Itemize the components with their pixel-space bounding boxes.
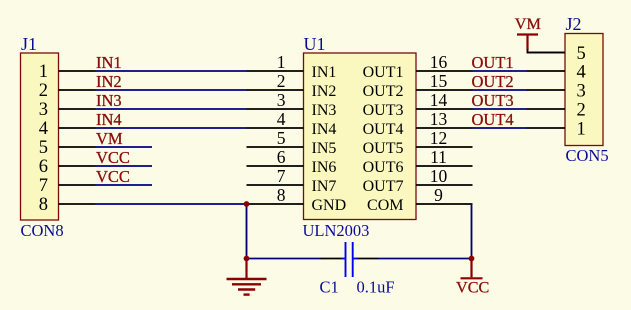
svg-text:IN4: IN4: [96, 110, 122, 129]
capacitor C1 left pin: [321, 258, 342, 260]
svg-text:OUT3: OUT3: [363, 102, 404, 119]
wire net VM stub: [96, 146, 153, 148]
svg-text:OUT5: OUT5: [363, 140, 404, 157]
svg-text:8: 8: [39, 195, 48, 215]
wire net IN1: [96, 70, 247, 72]
node junction at ground rail: [244, 256, 250, 262]
U1 left pin names IN1-IN7 GND: [312, 64, 347, 214]
node junction at VCC rail: [469, 256, 475, 262]
wire bottom rail left segment: [247, 258, 321, 260]
svg-text:IN1: IN1: [312, 64, 337, 81]
svg-text:3: 3: [39, 100, 48, 120]
svg-text:6: 6: [39, 157, 48, 177]
wire net VCC stub pin6: [96, 165, 153, 167]
wire net OUT3: [473, 108, 527, 110]
svg-text:1: 1: [39, 62, 48, 82]
svg-text:7: 7: [277, 166, 286, 186]
U1 right pins 16-9: [416, 71, 473, 204]
svg-text:5: 5: [39, 138, 48, 158]
svg-text:2: 2: [39, 81, 48, 101]
svg-text:12: 12: [430, 128, 448, 148]
svg-text:4: 4: [277, 109, 286, 129]
op-amp U1 body (ULN2003 IC): [304, 53, 417, 220]
svg-text:VM: VM: [96, 129, 123, 148]
power symbol VM bar: [517, 33, 538, 35]
svg-text:IN3: IN3: [96, 91, 122, 110]
ground symbol bar 4: [244, 293, 250, 295]
J1 pin numbers: [39, 62, 48, 215]
svg-text:2: 2: [277, 71, 286, 91]
svg-text:3: 3: [277, 90, 286, 110]
svg-text:VCC: VCC: [96, 148, 130, 167]
svg-text:OUT7: OUT7: [363, 178, 404, 195]
svg-text:13: 13: [430, 109, 448, 129]
svg-text:VCC: VCC: [96, 167, 130, 186]
power symbol VCC bar: [461, 277, 483, 279]
svg-text:J2: J2: [566, 14, 582, 34]
connector J2 body: [565, 34, 603, 146]
svg-text:15: 15: [430, 71, 448, 91]
svg-text:OUT4: OUT4: [363, 121, 404, 138]
svg-text:IN2: IN2: [312, 83, 337, 100]
svg-text:J1: J1: [21, 34, 37, 54]
wire net OUT2: [473, 89, 527, 91]
svg-text:1: 1: [577, 119, 586, 139]
svg-text:2: 2: [577, 100, 586, 120]
svg-text:8: 8: [277, 185, 286, 205]
svg-text:14: 14: [430, 90, 448, 110]
wire net IN3: [96, 108, 247, 110]
svg-text:IN1: IN1: [96, 53, 122, 72]
svg-text:OUT6: OUT6: [363, 159, 404, 176]
svg-text:OUT2: OUT2: [363, 83, 404, 100]
svg-text:IN6: IN6: [312, 159, 337, 176]
power symbol VM stem: [526, 35, 528, 51]
svg-text:OUT1: OUT1: [363, 64, 404, 81]
capacitor C1 right pin: [358, 258, 379, 260]
ground symbol bar 3: [238, 288, 255, 290]
svg-text:1: 1: [277, 52, 286, 72]
svg-text:OUT1: OUT1: [472, 53, 514, 72]
capacitor C1 left stub: [341, 258, 345, 260]
svg-text:3: 3: [577, 81, 586, 101]
svg-text:VCC: VCC: [456, 278, 489, 296]
wire row8 down to bottom rail: [246, 204, 248, 259]
J2 pins 5-1: [527, 53, 566, 129]
svg-text:7: 7: [39, 176, 48, 196]
wire net GND row8: [96, 203, 247, 205]
U1 right pin numbers 16-9: [430, 52, 448, 205]
svg-text:10: 10: [430, 166, 448, 186]
svg-text:9: 9: [434, 185, 443, 205]
J2 pin numbers 5-1: [577, 44, 586, 140]
capacitor C1 right plate: [352, 242, 354, 277]
svg-text:11: 11: [430, 147, 447, 167]
wire net OUT1: [473, 70, 527, 72]
svg-text:OUT4: OUT4: [472, 110, 514, 129]
wire COM pin9 down to VCC rail: [471, 205, 473, 259]
wire VM to J2 pin 5: [528, 50, 566, 53]
svg-text:OUT2: OUT2: [472, 72, 514, 91]
U1 left pins 1-8: [247, 71, 304, 204]
svg-text:VM: VM: [515, 15, 541, 33]
svg-text:COM: COM: [367, 197, 403, 214]
ground symbol stem: [245, 259, 247, 279]
svg-text:IN7: IN7: [312, 178, 337, 195]
wire net IN2: [96, 89, 247, 91]
node junction at GND pin row8: [244, 201, 250, 207]
svg-text:4: 4: [39, 119, 48, 139]
capacitor C1 right stub: [354, 258, 358, 260]
svg-text:ULN2003: ULN2003: [303, 221, 370, 240]
svg-text:OUT3: OUT3: [472, 91, 514, 110]
wire bottom rail right segment: [379, 258, 472, 260]
ground symbol bar 1: [227, 278, 267, 280]
svg-text:16: 16: [430, 52, 448, 72]
connector J1 body: [21, 53, 59, 220]
power symbol VCC stem: [470, 259, 472, 278]
U1 right pin names OUT1-OUT7 COM: [363, 64, 404, 214]
svg-text:0.1uF: 0.1uF: [357, 278, 395, 297]
svg-text:GND: GND: [312, 197, 347, 214]
svg-text:U1: U1: [304, 34, 326, 54]
wire net VCC stub pin7: [96, 184, 153, 186]
U1 left pin numbers 1-8: [277, 52, 286, 205]
svg-text:4: 4: [577, 62, 586, 82]
svg-text:IN2: IN2: [96, 72, 122, 91]
ground symbol bar 2: [232, 283, 261, 285]
svg-text:5: 5: [577, 44, 586, 64]
svg-text:IN5: IN5: [312, 140, 337, 157]
svg-text:IN3: IN3: [312, 102, 337, 119]
svg-text:CON5: CON5: [566, 146, 609, 165]
svg-text:6: 6: [277, 147, 286, 167]
svg-text:IN4: IN4: [312, 121, 337, 138]
svg-text:CON8: CON8: [21, 221, 64, 240]
J1 pins 1-8: [59, 71, 96, 204]
wire net OUT4: [473, 127, 527, 129]
svg-text:5: 5: [277, 128, 286, 148]
svg-text:C1: C1: [320, 278, 339, 297]
wire net IN4: [96, 127, 247, 129]
capacitor C1 left plate: [345, 242, 347, 277]
